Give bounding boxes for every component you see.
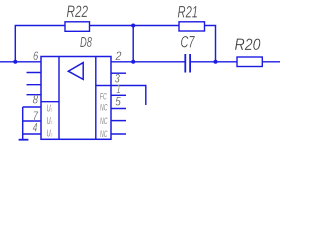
svg-text:2: 2 (115, 49, 122, 63)
junction dot right (214, 60, 218, 64)
svg-text:NC: NC (100, 129, 108, 140)
resistor R22 body (65, 22, 90, 32)
wire: top wire between R22 and R21 (90, 25, 180, 27)
svg-text:4: 4 (33, 121, 38, 135)
wire: R21 right to vertical down to main line (205, 26, 216, 62)
D8 left column horizontal divider (41, 101, 59, 103)
svg-text:R21: R21 (178, 3, 199, 21)
svg-text:8: 8 (33, 93, 39, 107)
resistor R20 body (237, 57, 262, 67)
svg-text:D8: D8 (80, 35, 93, 51)
wire: pin 1 line with down stub (111, 86, 146, 106)
svg-text:Us: Us (47, 116, 53, 127)
svg-text:NC: NC (100, 103, 108, 114)
op-amp box D8 outer rectangle (41, 57, 111, 140)
svg-text:Us: Us (47, 104, 53, 115)
wire: main input wire to pin 6 (0, 61, 41, 63)
svg-text:NC: NC (100, 116, 108, 127)
junction dot mid (131, 60, 135, 64)
capacitor C7 left plate (184, 54, 186, 73)
wire: vertical from top junction down to main line (132, 26, 134, 62)
wire: R20 right lead to edge (262, 61, 280, 63)
capacitor C7 right plate (189, 54, 191, 73)
svg-text:R22: R22 (67, 3, 89, 21)
svg-text:6: 6 (33, 49, 38, 63)
ground bar (19, 139, 29, 141)
D8 right column horizontal divider (96, 85, 111, 87)
wire: ground bus vertical with pin stubs 8,7,4 (23, 107, 41, 140)
wire: C7 right plate to R20 (191, 61, 237, 63)
wire: pin 3 stub (111, 72, 126, 74)
junction dot left (13, 60, 17, 64)
junction dot top (131, 24, 135, 28)
wire: NC stubs (111, 109, 126, 135)
svg-text:Us: Us (47, 129, 53, 140)
svg-text:C7: C7 (181, 34, 196, 52)
svg-text:FC: FC (100, 92, 107, 103)
amplifier triangle (68, 63, 83, 80)
wire: top feedback wire left segment (15, 26, 65, 62)
svg-text:5: 5 (115, 94, 121, 108)
wire: left stub pins (27, 73, 42, 95)
wire: pin 2 output to C7 left plate (111, 61, 185, 63)
wire: pin 5 stub (111, 94, 126, 96)
svg-text:R20: R20 (235, 36, 261, 54)
resistor R21 body (179, 22, 205, 31)
D8 right column divider (95, 57, 97, 140)
D8 left column divider (58, 57, 60, 140)
